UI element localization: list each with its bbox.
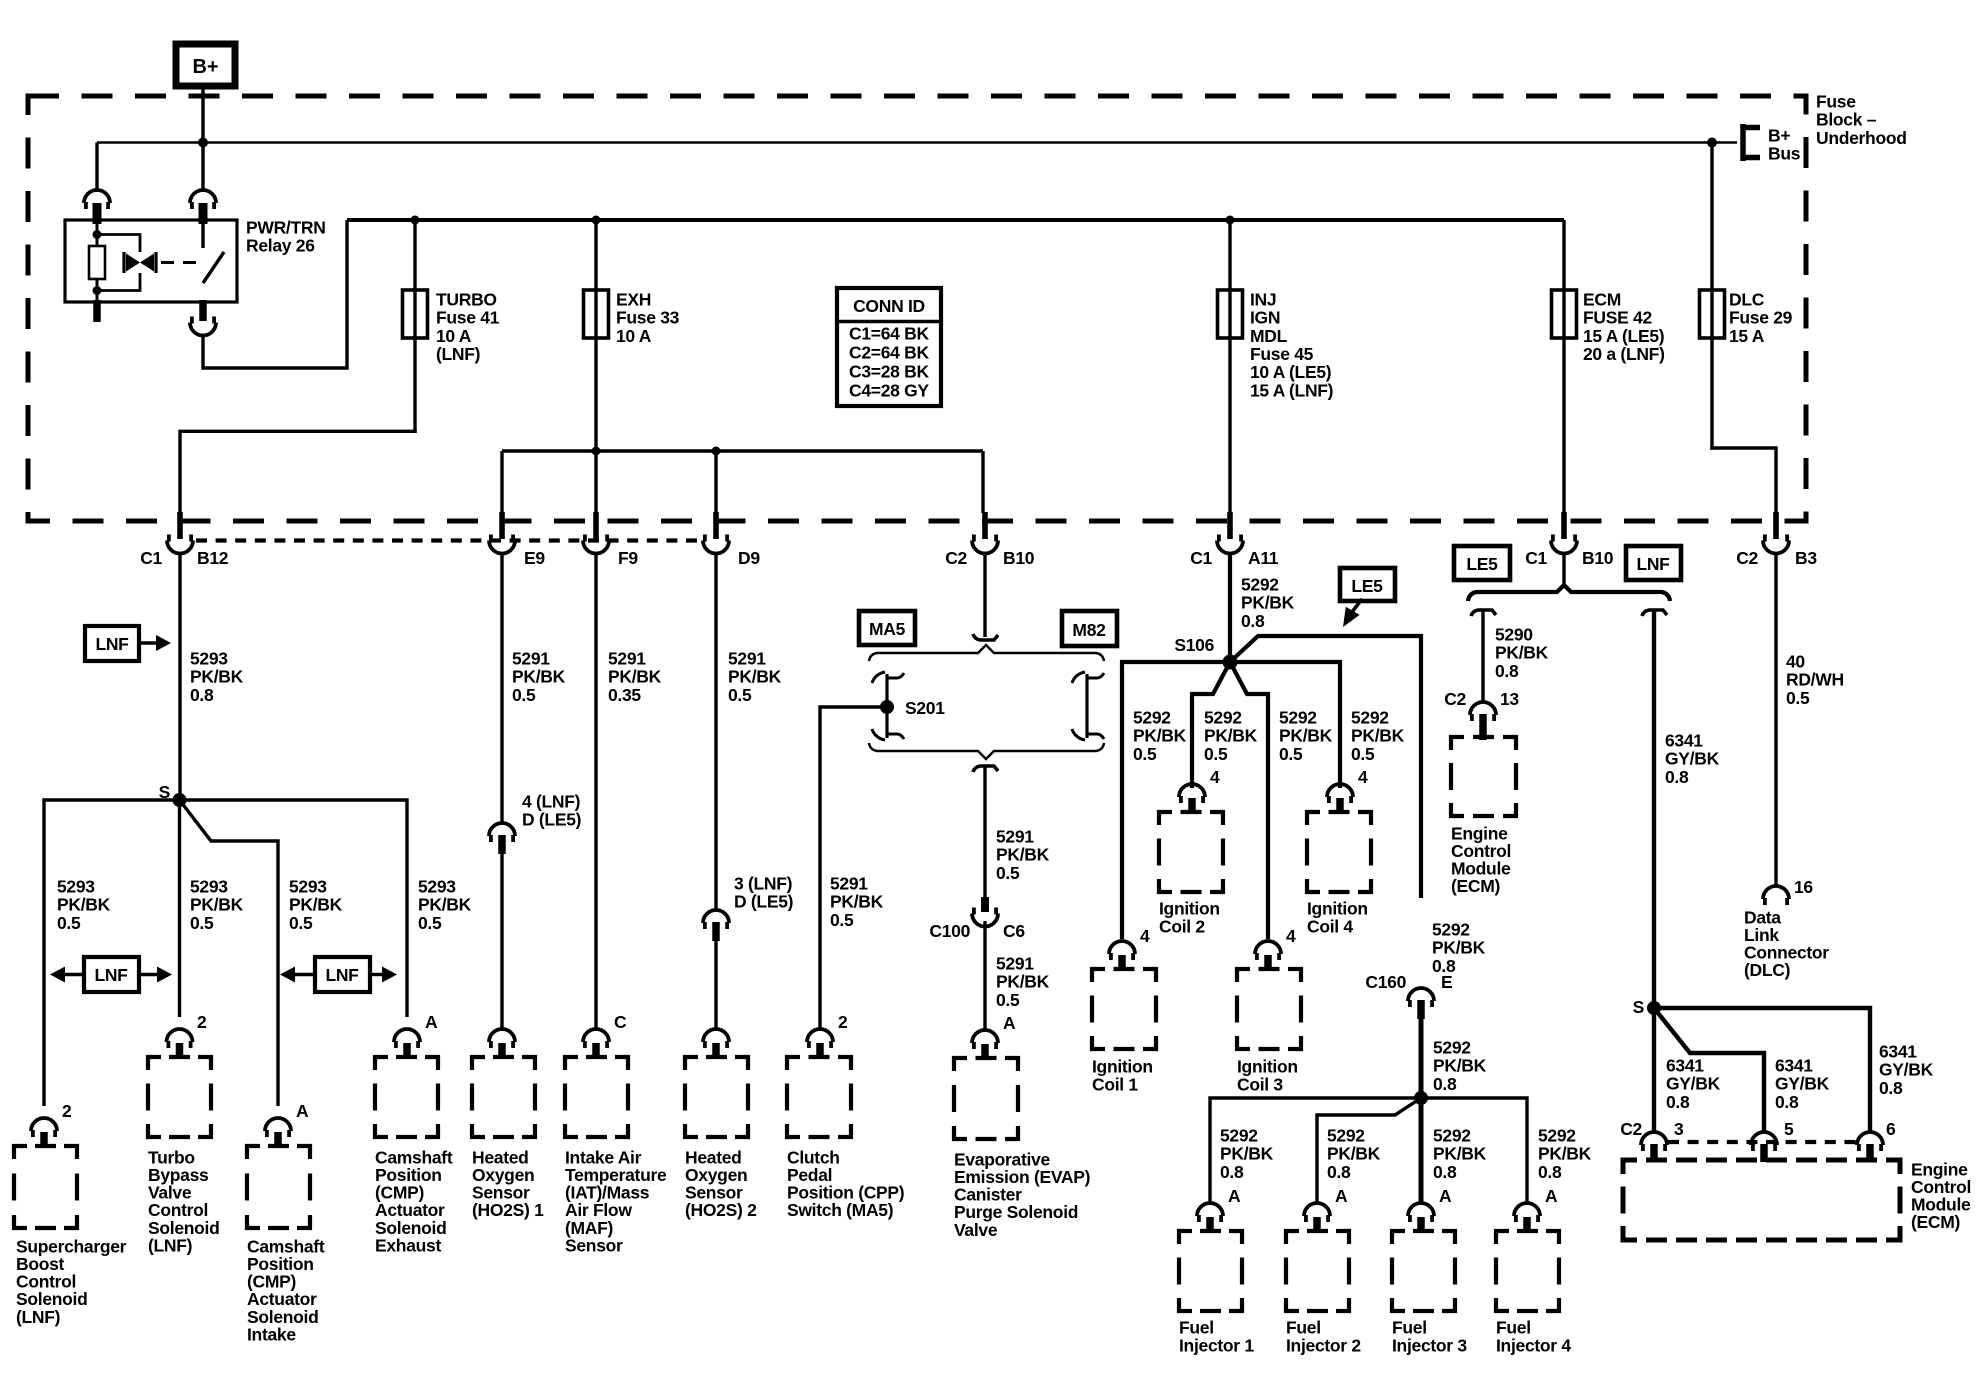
- relay actuating linkage (dashed): [161, 261, 198, 264]
- bracket LNF wire start: [1642, 610, 1667, 616]
- svg-text:PK/BK: PK/BK: [1495, 643, 1549, 663]
- label wire 5291 iat: [608, 648, 662, 704]
- svg-text:C2: C2: [1736, 548, 1758, 568]
- label C2 3: [1620, 1119, 1684, 1139]
- svg-text:PK/BK: PK/BK: [996, 845, 1050, 865]
- label wire 6341 pin6: [1879, 1041, 1934, 1097]
- connector cpp pin 2: [807, 1029, 833, 1058]
- svg-text:5293: 5293: [190, 648, 228, 668]
- label wire 5292 coil4: [1351, 707, 1405, 763]
- connector C1 pin E9: [489, 512, 515, 554]
- svg-text:PWR/TRN: PWR/TRN: [246, 217, 326, 237]
- wire 5291 B10 drop: [983, 553, 986, 637]
- label pin 5: [1784, 1119, 1794, 1139]
- connector C100 pin C6: [972, 897, 998, 927]
- wire exh fuse drop: [594, 220, 597, 513]
- label wire 5291 evap lower: [996, 953, 1050, 1009]
- label pin 2 supercharger: [62, 1101, 72, 1121]
- svg-text:5293: 5293: [190, 876, 228, 896]
- connector relay pin coil-top: [84, 190, 110, 224]
- svg-text:5291: 5291: [830, 873, 868, 893]
- connector cmp exhaust pin A: [394, 1029, 420, 1058]
- label pin 16: [1794, 877, 1813, 897]
- wire 5291 cpp: [820, 707, 887, 1031]
- dotted connector group line C1: [196, 538, 702, 542]
- label C2 B10: [945, 548, 1035, 568]
- svg-text:C6: C6: [1003, 921, 1025, 941]
- label cpp: [787, 1147, 904, 1220]
- svg-text:10 A: 10 A: [616, 326, 652, 346]
- svg-text:Fuse 45: Fuse 45: [1250, 344, 1314, 364]
- svg-text:Valve: Valve: [954, 1220, 998, 1240]
- label pin A inj2: [1335, 1186, 1348, 1206]
- label fuel injector 1: [1179, 1317, 1254, 1355]
- svg-text:5291: 5291: [996, 826, 1034, 846]
- svg-text:5292: 5292: [1432, 919, 1470, 939]
- svg-text:(LNF): (LNF): [436, 344, 480, 364]
- fuse block - underhood dashed border: [28, 96, 1806, 521]
- ignition coil 4 box: [1307, 812, 1371, 892]
- dotted connector group line ecm C2: [1668, 1140, 1856, 1144]
- svg-text:PK/BK: PK/BK: [418, 895, 472, 915]
- svg-text:0.5: 0.5: [1786, 688, 1810, 708]
- svg-text:(LNF): (LNF): [148, 1235, 192, 1255]
- wire relay coil feed: [95, 143, 98, 193]
- connector C1 pin A11: [1217, 512, 1243, 554]
- svg-text:5292: 5292: [1327, 1125, 1365, 1145]
- connector relay pin switch-top: [190, 190, 216, 224]
- svg-text:Switch (MA5): Switch (MA5): [787, 1200, 893, 1220]
- svg-text:Ignition: Ignition: [1307, 898, 1368, 918]
- label pin A inj3: [1439, 1186, 1452, 1206]
- svg-text:C2: C2: [1444, 689, 1466, 709]
- svg-text:5291: 5291: [728, 648, 766, 668]
- svg-text:DLC: DLC: [1729, 289, 1765, 309]
- svg-text:RD/WH: RD/WH: [1786, 670, 1844, 690]
- connector C2 pin B10: [972, 512, 998, 554]
- svg-text:5292: 5292: [1279, 707, 1317, 727]
- svg-text:0.35: 0.35: [608, 685, 641, 705]
- wire S106 to coil2: [1192, 662, 1230, 788]
- svg-text:D (LE5): D (LE5): [734, 892, 793, 912]
- svg-text:5: 5: [1784, 1119, 1794, 1139]
- svg-text:S106: S106: [1174, 635, 1214, 655]
- wire S to cmp intake: [180, 800, 279, 1106]
- svg-text:0.8: 0.8: [1433, 1074, 1457, 1094]
- svg-text:PK/BK: PK/BK: [57, 895, 111, 915]
- relay coil wire top: [96, 222, 99, 246]
- svg-text:4: 4: [1140, 926, 1150, 946]
- fuse EXH Fuse 33: [584, 290, 609, 338]
- svg-text:PK/BK: PK/BK: [1433, 1056, 1487, 1076]
- fuel injector 3 box: [1392, 1231, 1455, 1311]
- svg-text:Coil 4: Coil 4: [1307, 917, 1353, 937]
- svg-text:PK/BK: PK/BK: [608, 667, 662, 687]
- svg-text:4: 4: [1210, 767, 1220, 787]
- label pin 2 cpp: [838, 1012, 848, 1032]
- wire 5291 D9 upper: [714, 553, 717, 909]
- node inj fuse tap: [1226, 216, 1235, 225]
- wire 5291 evap lower: [983, 921, 986, 1032]
- svg-text:0.8: 0.8: [1241, 611, 1265, 631]
- node exh fuse tap: [592, 216, 601, 225]
- svg-text:GY/BK: GY/BK: [1879, 1060, 1934, 1080]
- wire dlc fuse drop: [1710, 143, 1713, 450]
- svg-text:PK/BK: PK/BK: [830, 892, 884, 912]
- node S splice (left): [173, 793, 187, 807]
- svg-text:6: 6: [1886, 1119, 1896, 1139]
- label ignition coil 3: [1237, 1056, 1298, 1094]
- svg-text:Sensor: Sensor: [565, 1235, 623, 1255]
- label C100 C6: [929, 921, 1025, 941]
- svg-text:C2=64 BK: C2=64 BK: [849, 342, 929, 362]
- svg-text:A: A: [425, 1012, 438, 1032]
- connector coil2 pin 4: [1179, 784, 1205, 813]
- svg-text:0.8: 0.8: [1433, 1162, 1457, 1182]
- svg-text:FUSE 42: FUSE 42: [1583, 308, 1652, 328]
- svg-text:Ignition: Ignition: [1159, 898, 1220, 918]
- wire ignition bus: [347, 218, 1564, 222]
- wire 5290 to ecm C2-13: [1481, 610, 1484, 701]
- svg-text:C2: C2: [1620, 1119, 1642, 1139]
- connector iat pin C: [583, 1029, 609, 1058]
- label fuel injector 4: [1496, 1317, 1571, 1355]
- wire 5291 F9: [594, 553, 597, 1031]
- label ignition coil 2: [1159, 898, 1220, 936]
- svg-text:2: 2: [197, 1012, 207, 1032]
- svg-text:PK/BK: PK/BK: [1204, 726, 1258, 746]
- svg-text:Fuse: Fuse: [1816, 91, 1856, 111]
- svg-text:(LNF): (LNF): [16, 1307, 60, 1327]
- fuse ECM FUSE 42: [1552, 290, 1577, 338]
- svg-text:3 (LNF): 3 (LNF): [734, 873, 792, 893]
- fuse INJ IGN MDL Fuse 45: [1218, 290, 1243, 338]
- relay coil wire bottom: [96, 279, 99, 302]
- svg-text:PK/BK: PK/BK: [996, 972, 1050, 992]
- svg-text:Fuel: Fuel: [1392, 1317, 1427, 1337]
- svg-text:0.5: 0.5: [1279, 744, 1303, 764]
- connector evap pin A: [972, 1030, 998, 1059]
- label wire 5291 evap upper: [996, 826, 1050, 882]
- svg-text:(HO2S) 2: (HO2S) 2: [685, 1200, 757, 1220]
- label wire 5291 cpp: [830, 873, 884, 929]
- svg-text:A: A: [1545, 1186, 1558, 1206]
- wire ecm fuse drop: [1562, 220, 1565, 513]
- label pin 4 coil2: [1210, 767, 1220, 787]
- fuse EXH label: [616, 289, 680, 345]
- svg-text:15 A (LE5): 15 A (LE5): [1583, 326, 1664, 346]
- svg-text:Coil 2: Coil 2: [1159, 917, 1205, 937]
- wire S to ecm pin6: [1654, 1008, 1870, 1131]
- engine control module box (main): [1623, 1160, 1900, 1240]
- svg-text:Exhaust: Exhaust: [375, 1235, 441, 1255]
- svg-text:Fuse 29: Fuse 29: [1729, 308, 1793, 328]
- label pin A cmp exhaust: [425, 1012, 438, 1032]
- node exh header junction: [592, 447, 601, 456]
- wire 6341 to S: [1652, 610, 1656, 1008]
- resistor relay coil: [89, 246, 105, 279]
- connector C160 pin E: [1408, 988, 1434, 1019]
- svg-text:PK/BK: PK/BK: [1220, 1144, 1274, 1164]
- svg-text:Relay 26: Relay 26: [246, 236, 315, 256]
- label C160 E: [1365, 972, 1452, 992]
- svg-text:6341: 6341: [1666, 1055, 1704, 1075]
- label cmp intake: [247, 1236, 325, 1344]
- wire S to ecm pin5: [1654, 1008, 1764, 1131]
- svg-text:5291: 5291: [996, 953, 1034, 973]
- label wire 6341 pin3: [1666, 1055, 1721, 1111]
- M82 flag box: [1062, 611, 1117, 646]
- label F9: [618, 548, 638, 568]
- svg-text:MA5: MA5: [869, 619, 906, 639]
- svg-text:0.5: 0.5: [996, 990, 1020, 1010]
- turbo bypass valve control solenoid box: [148, 1057, 211, 1137]
- intake air temperature maf sensor box: [565, 1057, 628, 1137]
- svg-text:MDL: MDL: [1250, 326, 1288, 346]
- connector relay pin switch-bottom: [190, 300, 216, 336]
- fuse block label: [1816, 91, 1907, 147]
- connector ho2s2 inline 3(LNF) D(LE5): [703, 910, 729, 941]
- label data link connector: [1744, 907, 1829, 980]
- wire S to cmp exhaust: [180, 800, 408, 1017]
- connector coil4 pin 4: [1327, 784, 1353, 813]
- svg-text:A11: A11: [1248, 548, 1279, 568]
- wire splice to injector1: [1210, 1098, 1421, 1205]
- wire 5291 E9 lower: [500, 854, 503, 1031]
- LE5 flag with arrow: [1340, 568, 1395, 627]
- svg-text:0.5: 0.5: [830, 910, 854, 930]
- svg-text:Intake: Intake: [247, 1324, 296, 1344]
- svg-text:Ignition: Ignition: [1237, 1056, 1298, 1076]
- svg-text:A: A: [1439, 1186, 1452, 1206]
- label wire 5292 coil3: [1279, 707, 1333, 763]
- svg-text:0.8: 0.8: [190, 685, 214, 705]
- svg-text:0.8: 0.8: [1538, 1162, 1562, 1182]
- svg-text:Fuse 41: Fuse 41: [436, 308, 500, 328]
- label supercharger: [16, 1236, 127, 1326]
- svg-text:B+: B+: [192, 56, 218, 78]
- bracket wire start below brace: [973, 766, 998, 772]
- svg-text:A: A: [1003, 1013, 1016, 1033]
- svg-text:D (LE5): D (LE5): [522, 810, 581, 830]
- svg-text:C4=28 GY: C4=28 GY: [849, 380, 929, 400]
- svg-text:0.5: 0.5: [1351, 744, 1375, 764]
- svg-text:5293: 5293: [57, 876, 95, 896]
- wire 5291 E9 upper: [500, 553, 503, 822]
- svg-text:LE5: LE5: [1351, 576, 1383, 596]
- supercharger boost control solenoid box: [14, 1146, 77, 1228]
- connector C1 pin F9: [583, 512, 609, 554]
- wire bus to B+ Bus terminal: [1712, 141, 1737, 144]
- relay label: [246, 217, 326, 255]
- svg-text:5293: 5293: [289, 876, 327, 896]
- label wire 5292 coil2: [1204, 707, 1258, 763]
- svg-text:13: 13: [1500, 689, 1519, 709]
- connector ho2s2 pin: [703, 1029, 729, 1058]
- svg-text:PK/BK: PK/BK: [1432, 938, 1486, 958]
- label evap: [954, 1149, 1090, 1239]
- label pin 4 coil1: [1140, 926, 1150, 946]
- label pin 2 turbo bypass: [197, 1012, 207, 1032]
- svg-text:C1: C1: [1190, 548, 1212, 568]
- label C1 B10 (ecm): [1525, 548, 1614, 568]
- wire C1-B10 to brace: [1562, 553, 1565, 588]
- wire S to ecm pin3: [1652, 1008, 1656, 1131]
- label S201: [905, 698, 945, 718]
- svg-text:B10: B10: [1582, 548, 1614, 568]
- label wire 5292 c160 lower: [1433, 1037, 1487, 1093]
- svg-text:Coil 1: Coil 1: [1092, 1075, 1138, 1095]
- svg-text:A: A: [1335, 1186, 1348, 1206]
- svg-text:6341: 6341: [1665, 730, 1703, 750]
- label ho2s1 inline pins: [522, 791, 581, 829]
- connector C1 pin D9: [703, 512, 729, 554]
- svg-text:Coil 3: Coil 3: [1237, 1075, 1283, 1095]
- label C1 B12: [140, 548, 229, 568]
- svg-text:Fuel: Fuel: [1179, 1317, 1214, 1337]
- svg-text:10 A: 10 A: [436, 326, 472, 346]
- svg-text:TURBO: TURBO: [436, 289, 497, 309]
- svg-text:(ECM): (ECM): [1911, 1212, 1960, 1232]
- svg-text:2: 2: [838, 1012, 848, 1032]
- connector supercharger pin 2: [31, 1118, 57, 1147]
- wire S106 to coil1: [1122, 662, 1230, 939]
- label fuel injector 3: [1392, 1317, 1467, 1355]
- bracket wire end above brace: [973, 634, 998, 640]
- ignition coil 3 box: [1237, 969, 1301, 1049]
- LNF applicability flag (right pair): [280, 957, 397, 992]
- svg-text:PK/BK: PK/BK: [1241, 593, 1295, 613]
- svg-text:4: 4: [1286, 926, 1296, 946]
- label wire 5293 0.8: [190, 648, 244, 704]
- svg-text:0.8: 0.8: [1220, 1162, 1244, 1182]
- wire S106 to coil3: [1230, 662, 1268, 939]
- connector ecm pin C2-13: [1470, 702, 1496, 740]
- label fuel injector 2: [1286, 1317, 1361, 1355]
- brace ecm option split: [1468, 585, 1670, 601]
- wire S106 to LE5 line: [1230, 636, 1421, 898]
- node turbo fuse tap: [411, 216, 420, 225]
- wire relay output: [203, 220, 347, 368]
- wire relay suppressor branch: [97, 235, 140, 291]
- svg-text:GY/BK: GY/BK: [1775, 1074, 1830, 1094]
- wire 5291 D9 lower: [714, 941, 717, 1031]
- wire 5292 A11 to S106: [1228, 553, 1232, 662]
- label wire 5293 exhaust: [418, 876, 472, 932]
- label S (left): [159, 782, 170, 802]
- label C1 A11: [1190, 548, 1279, 568]
- wire B+ bus (thin): [97, 141, 1712, 144]
- svg-text:(ECM): (ECM): [1451, 876, 1500, 896]
- wire splice to injector2: [1317, 1098, 1421, 1205]
- LE5 flag box: [1454, 546, 1510, 580]
- svg-text:5292: 5292: [1538, 1125, 1576, 1145]
- label iat-maf: [565, 1147, 667, 1255]
- svg-text:5293: 5293: [418, 876, 456, 896]
- node S201 splice: [880, 700, 894, 714]
- svg-text:PK/BK: PK/BK: [512, 667, 566, 687]
- wire 5292 c160 lower: [1419, 1019, 1424, 1098]
- svg-text:3: 3: [1674, 1119, 1684, 1139]
- svg-text:LNF: LNF: [95, 634, 129, 654]
- svg-text:0.5: 0.5: [418, 913, 442, 933]
- svg-text:LE5: LE5: [1466, 554, 1498, 574]
- label wire 6341 pin5: [1775, 1055, 1830, 1111]
- svg-text:(HO2S) 1: (HO2S) 1: [472, 1200, 544, 1220]
- label E9: [524, 548, 545, 568]
- svg-text:Fuel: Fuel: [1496, 1317, 1531, 1337]
- svg-text:IGN: IGN: [1250, 308, 1280, 328]
- svg-text:C100: C100: [929, 921, 970, 941]
- svg-text:0.8: 0.8: [1879, 1078, 1903, 1098]
- connector injector3 pin A: [1408, 1203, 1434, 1232]
- svg-text:C2: C2: [945, 548, 967, 568]
- label ecm (main): [1911, 1159, 1971, 1232]
- label turbo bypass: [148, 1147, 220, 1255]
- svg-text:Injector 3: Injector 3: [1392, 1336, 1467, 1356]
- svg-text:15 A (LNF): 15 A (LNF): [1250, 380, 1333, 400]
- fuse TURBO Fuse 41: [403, 290, 428, 338]
- svg-text:A: A: [296, 1101, 309, 1121]
- B+ battery feed box: [176, 44, 235, 86]
- svg-text:B10: B10: [1003, 548, 1035, 568]
- svg-text:C160: C160: [1365, 972, 1406, 992]
- wire S to supercharger: [44, 800, 180, 1106]
- svg-text:A: A: [1228, 1186, 1241, 1206]
- label pin C iat: [614, 1012, 627, 1032]
- fuel injector 2 box: [1286, 1231, 1349, 1311]
- label ho2s2: [685, 1147, 757, 1220]
- svg-text:GY/BK: GY/BK: [1665, 749, 1720, 769]
- wire S106 to coil4: [1230, 662, 1340, 788]
- svg-text:Block –: Block –: [1816, 110, 1877, 130]
- connector cmp intake pin A: [265, 1118, 291, 1147]
- svg-text:5291: 5291: [608, 648, 646, 668]
- svg-text:5292: 5292: [1204, 707, 1242, 727]
- svg-text:B12: B12: [197, 548, 229, 568]
- LNF applicability flag: [85, 626, 171, 661]
- connector ecm pin 3: [1641, 1132, 1667, 1162]
- fuse DLC label: [1729, 289, 1793, 345]
- label wire 40 RD/WH: [1786, 651, 1844, 707]
- svg-text:4: 4: [1358, 767, 1368, 787]
- wire splice to injector3: [1419, 1098, 1424, 1205]
- node DLC bus junction: [1707, 138, 1717, 148]
- node relay coil bottom: [93, 286, 102, 295]
- svg-text:D9: D9: [738, 548, 760, 568]
- heated oxygen sensor 2 box: [685, 1057, 748, 1137]
- relay switch contact: [203, 252, 224, 283]
- svg-text:6341: 6341: [1879, 1041, 1917, 1061]
- fuse DLC Fuse 29: [1700, 290, 1725, 338]
- label wire 5292 inj3: [1433, 1125, 1487, 1181]
- svg-text:(DLC): (DLC): [1744, 960, 1790, 980]
- connector coil3 pin 4: [1255, 941, 1281, 970]
- label S106: [1174, 635, 1214, 655]
- svg-text:C3=28 BK: C3=28 BK: [849, 361, 929, 381]
- label wire 5291 ho2s1: [512, 648, 566, 704]
- brace option split top: [869, 645, 1104, 661]
- svg-text:Bus: Bus: [1768, 144, 1801, 164]
- fuel injector 1 box: [1179, 1231, 1242, 1311]
- label pin 4 coil4: [1358, 767, 1368, 787]
- label pin A evap: [1003, 1013, 1016, 1033]
- svg-text:5292: 5292: [1133, 707, 1171, 727]
- B+ Bus label: [1768, 125, 1801, 163]
- svg-text:PK/BK: PK/BK: [190, 895, 244, 915]
- svg-text:Injector 1: Injector 1: [1179, 1336, 1254, 1356]
- connector ho2s1 inline 4(LNF) D(LE5): [489, 823, 515, 854]
